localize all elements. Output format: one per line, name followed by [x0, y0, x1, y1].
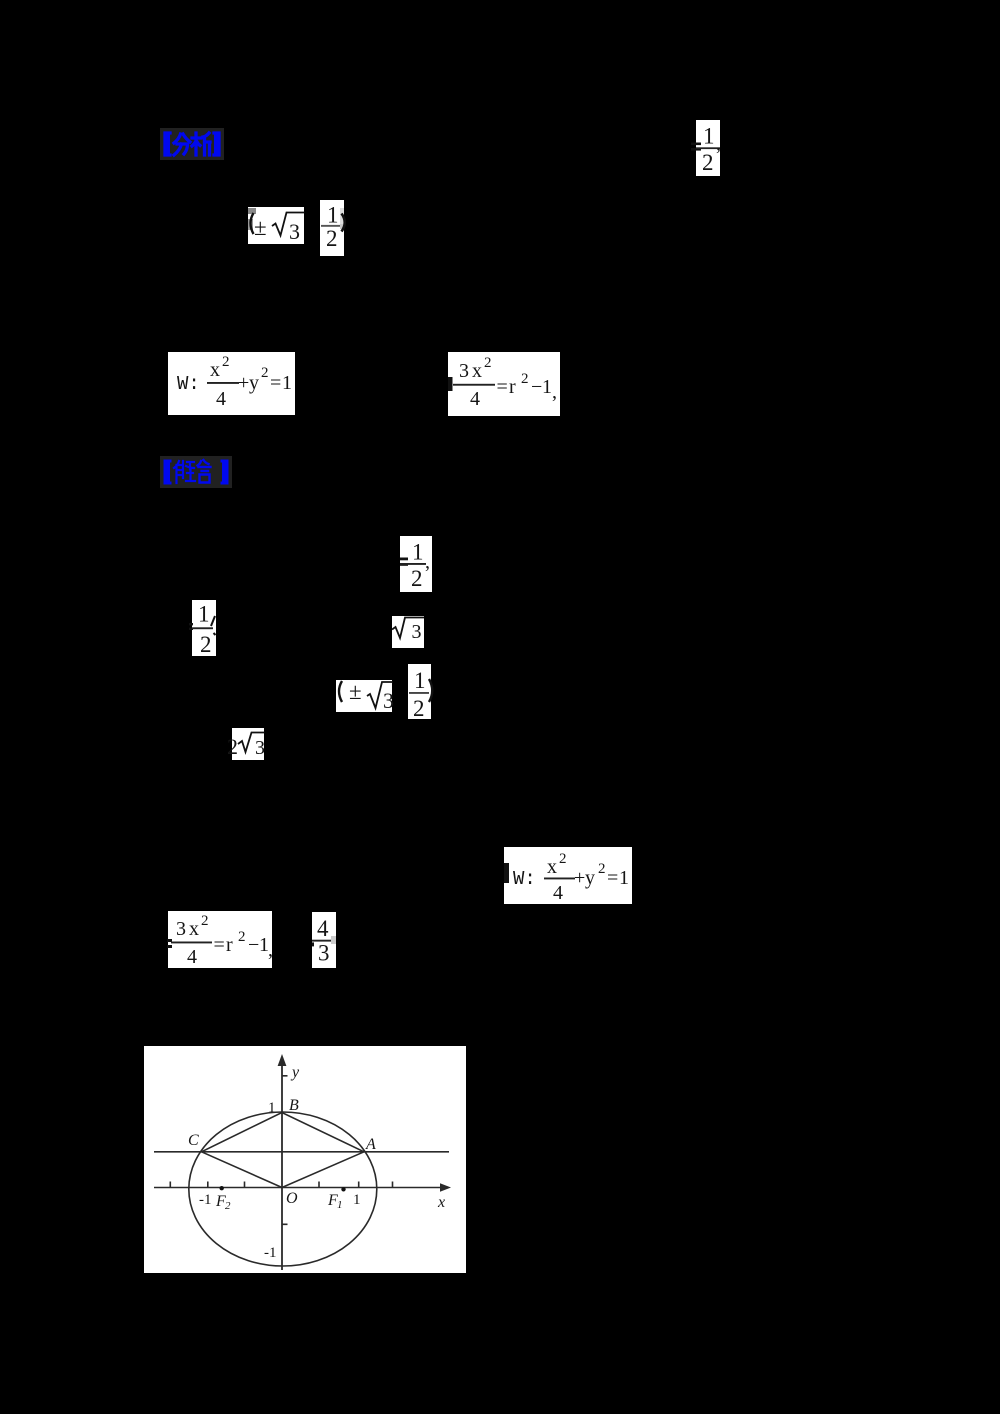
svg-text:3: 3: [459, 360, 469, 382]
svg-text:=: =: [214, 934, 225, 956]
svg-text:2: 2: [702, 150, 714, 175]
chords CO OA: [202, 1152, 365, 1188]
svg-text:B: B: [289, 1097, 299, 1114]
svg-text:4: 4: [187, 946, 197, 968]
svg-text:2: 2: [222, 354, 230, 370]
svg-text:+: +: [238, 372, 249, 394]
svg-text:x: x: [189, 918, 199, 940]
svg-text:+: +: [574, 867, 585, 889]
svg-text:3: 3: [383, 688, 394, 713]
svg-text:2: 2: [559, 851, 567, 867]
formula W: x2/4+y2=1 (second): [504, 847, 632, 904]
svg-text:1: 1: [703, 124, 715, 149]
svg-text:1: 1: [327, 203, 339, 228]
svg-text:x: x: [210, 359, 220, 381]
diagram box: [144, 1046, 466, 1273]
svg-text:2: 2: [411, 566, 423, 591]
svg-text:,: ,: [716, 133, 721, 155]
svg-text:2: 2: [200, 632, 212, 657]
line y=1/2 through C and A: [154, 1151, 449, 1153]
header backing 解答: [160, 456, 232, 488]
svg-text:,: ,: [552, 381, 557, 403]
svg-text:y: y: [290, 1064, 300, 1081]
formula W: x2/4+y2=1 (first): [168, 352, 295, 415]
svg-text:2: 2: [225, 1200, 231, 1212]
svg-text:O: O: [286, 1190, 298, 1207]
formula (±√3 (solution): [336, 680, 392, 712]
svg-text:4: 4: [553, 882, 563, 904]
svg-text:y: y: [585, 867, 595, 889]
svg-text:3: 3: [255, 737, 265, 759]
ellipse: [189, 1112, 377, 1266]
svg-text:A: A: [365, 1136, 376, 1153]
svg-text:1: 1: [353, 1192, 361, 1208]
x axis: [154, 1187, 442, 1189]
formula 3x2/4=r2-1 (second): [168, 911, 272, 968]
svg-text:-1: -1: [199, 1192, 212, 1208]
svg-text:1: 1: [412, 540, 424, 565]
svg-text:1: 1: [337, 1199, 343, 1211]
svg-text:4: 4: [216, 388, 226, 410]
svg-text:2: 2: [227, 734, 238, 759]
svg-text:2: 2: [261, 365, 269, 381]
header backing 分析: [160, 128, 224, 160]
svg-text:=: =: [270, 372, 281, 394]
svg-text:1: 1: [619, 867, 629, 889]
svg-text:2: 2: [598, 861, 606, 877]
F2 dot: [220, 1186, 224, 1190]
x arrow: [440, 1183, 451, 1191]
svg-text:=: =: [497, 376, 508, 398]
svg-text:r: r: [509, 376, 516, 398]
svg-text:4: 4: [317, 916, 329, 941]
formula 1/2, (left): [192, 600, 216, 656]
svg-text:1: 1: [198, 602, 210, 627]
svg-text:2: 2: [521, 371, 529, 387]
svg-text:−: −: [248, 934, 259, 956]
svg-text:=: =: [607, 867, 618, 889]
svg-text:1: 1: [268, 1100, 276, 1116]
svg-text:2: 2: [238, 929, 246, 945]
svg-text:x: x: [437, 1194, 445, 1211]
formula 1/2): [320, 200, 344, 256]
svg-text:4: 4: [470, 388, 480, 410]
svg-text:2: 2: [484, 355, 492, 371]
formula =1/2, (solution): [400, 536, 432, 592]
svg-text:3: 3: [176, 918, 186, 940]
svg-text:−: −: [531, 376, 542, 398]
y axis: [281, 1062, 283, 1270]
F1 dot: [341, 1187, 345, 1191]
formula (±√3: [248, 207, 304, 244]
formula 2√3: [232, 728, 264, 760]
y arrow: [278, 1054, 287, 1066]
svg-text:W:: W:: [513, 868, 536, 890]
svg-text:1: 1: [282, 372, 292, 394]
svg-text:r: r: [226, 934, 233, 956]
formula =1/2, top right: [696, 120, 720, 176]
formula 3x2/4=r2-1, (first): [448, 352, 560, 416]
svg-text:x: x: [547, 856, 557, 878]
svg-text:3: 3: [318, 941, 330, 966]
formula 1/2) (solution): [408, 664, 431, 719]
ticks y axis: [282, 1076, 288, 1225]
formula sqrt3: [392, 616, 424, 648]
svg-text:1: 1: [542, 376, 552, 398]
ticks x axis: [170, 1182, 392, 1188]
svg-text:±: ±: [349, 679, 362, 704]
svg-text:y: y: [249, 372, 259, 394]
svg-text:2: 2: [413, 696, 425, 721]
svg-text:C: C: [188, 1132, 199, 1149]
blue header 【分析】: [160, 128, 224, 160]
svg-text:2: 2: [326, 226, 338, 251]
svg-text:3: 3: [289, 219, 300, 244]
chords CB BA: [202, 1113, 365, 1152]
svg-text:-1: -1: [264, 1245, 277, 1261]
blue header 【解答】: [160, 456, 232, 488]
svg-text:±: ±: [254, 215, 267, 240]
svg-text:,: ,: [268, 939, 273, 961]
svg-text:W:: W:: [177, 373, 200, 395]
formula 4/3: [312, 912, 336, 968]
svg-text:3: 3: [412, 621, 422, 643]
svg-text:,: ,: [425, 551, 430, 573]
svg-text:x: x: [472, 360, 482, 382]
svg-text:2: 2: [201, 913, 209, 929]
svg-text:1: 1: [414, 668, 426, 693]
